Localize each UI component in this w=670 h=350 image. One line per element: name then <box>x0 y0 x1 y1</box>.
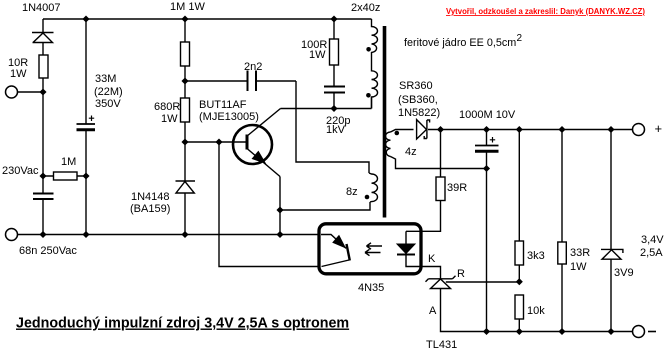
node collector / 220p <box>330 105 337 112</box>
wire emitter vertical <box>279 177 281 235</box>
svg-text:1N4007: 1N4007 <box>22 2 61 14</box>
svg-text:feritové jádro EE 0,5cm: feritové jádro EE 0,5cm <box>404 37 516 49</box>
svg-text:(22M): (22M) <box>94 86 123 98</box>
wire 100R column <box>333 19 335 109</box>
resistor 10R <box>39 55 48 78</box>
svg-text:3,4V: 3,4V <box>641 234 664 246</box>
svg-text:K: K <box>428 253 436 265</box>
8z phase dot <box>365 195 370 200</box>
wire opto base feedback <box>219 142 319 267</box>
node base / 1N4148 <box>181 138 188 145</box>
svg-text:68n 250Vac: 68n 250Vac <box>19 245 77 257</box>
resistor 100R <box>330 39 339 65</box>
wire 39R column <box>406 130 441 232</box>
svg-text:TL431: TL431 <box>426 339 457 350</box>
node secondary ground <box>483 165 490 172</box>
svg-text:350V: 350V <box>95 98 121 110</box>
svg-text:2x40z: 2x40z <box>351 2 380 14</box>
wire bottom left rail <box>18 234 319 236</box>
wire 8z bottom <box>280 202 370 210</box>
node bottom rail / 33M <box>82 231 89 238</box>
wire 4z bottom lead <box>391 157 487 169</box>
svg-text:4N35: 4N35 <box>358 282 384 294</box>
resistor 680R <box>181 98 190 122</box>
wire 33M branch <box>85 19 87 235</box>
node divider / R ref <box>516 278 523 285</box>
resistor 33R <box>558 242 567 264</box>
resistor R2 1M horizontal <box>54 172 78 180</box>
wire R reference <box>446 281 520 283</box>
transistor Q1 BUT11AF <box>233 109 281 177</box>
svg-text:Vytvořil, odzkoušel a zakresli: Vytvořil, odzkoušel a zakreslil: Danyk (… <box>446 6 645 16</box>
wire LED cathode <box>406 255 441 279</box>
svg-text:R: R <box>457 268 465 280</box>
diode D3 SR360 schottky <box>417 120 430 139</box>
diode D1 1N4007 <box>32 33 54 43</box>
svg-text:2,5A: 2,5A <box>640 247 663 259</box>
svg-text:(BA159): (BA159) <box>130 203 170 215</box>
node top rail / 100R <box>330 15 337 22</box>
wire 1M1W column <box>184 19 186 81</box>
capacitor C1 33M electrolytic <box>77 116 96 130</box>
node emitter / 8z <box>276 206 283 213</box>
wire 4z top lead <box>391 130 414 133</box>
4z phase dot <box>395 131 400 136</box>
svg-text:10k: 10k <box>527 305 545 317</box>
svg-text:2: 2 <box>517 33 523 44</box>
wire left branch to 1M <box>42 92 44 176</box>
primary phase dot upper <box>366 47 371 52</box>
svg-text:SR360: SR360 <box>399 80 433 92</box>
svg-text:1N5822): 1N5822) <box>398 107 440 119</box>
wire 3V9 column <box>610 130 612 332</box>
transformer secondary 4z winding <box>386 132 391 157</box>
svg-text:1kV: 1kV <box>326 124 346 136</box>
svg-text:680R: 680R <box>154 101 180 113</box>
resistor 3k3 <box>515 241 524 265</box>
diode D2 1N4148 <box>176 181 196 193</box>
svg-text:1W: 1W <box>309 49 326 61</box>
svg-text:3k3: 3k3 <box>527 250 545 262</box>
zener diode 3V9 <box>601 249 623 259</box>
svg-text:1W: 1W <box>161 113 178 125</box>
primary phase dot lower <box>366 93 371 98</box>
wire 1N4148 column <box>184 142 186 235</box>
wire 2n2 to 8z top <box>296 81 369 173</box>
svg-text:230Vac: 230Vac <box>2 165 39 177</box>
wire 680R column <box>184 81 186 142</box>
shunt regulator TL431 <box>426 276 456 289</box>
wire LED anode inside opto <box>405 231 407 244</box>
node -rail / 1000M <box>483 328 490 335</box>
wire diode to rail <box>428 129 633 131</box>
svg-text:Jednoduchý impulzní zdroj 3,4V: Jednoduchý impulzní zdroj 3,4V 2,5A s op… <box>16 316 349 332</box>
svg-text:4z: 4z <box>405 146 417 158</box>
node 1M right <box>82 172 89 179</box>
svg-text:(MJE13005): (MJE13005) <box>199 111 259 123</box>
svg-text:BUT11AF: BUT11AF <box>199 99 247 111</box>
wire 2n2 link <box>185 80 296 82</box>
svg-text:1W: 1W <box>10 68 27 80</box>
node AC live input <box>39 88 46 95</box>
node base / opto <box>215 138 222 145</box>
node top rail / 33M <box>82 15 89 22</box>
optocoupler U1 4N35 box <box>319 224 421 274</box>
wire 33R column <box>561 130 563 332</box>
wire TL431 anode / bottom output rail <box>441 289 633 332</box>
transformer T1 core <box>383 26 387 218</box>
svg-text:33R: 33R <box>570 247 590 259</box>
node bottom rail / emitter <box>276 231 283 238</box>
node bottom rail / 1N4148 <box>181 231 188 238</box>
capacitor 1000M electrolytic <box>475 137 499 151</box>
node 680R top <box>181 77 188 84</box>
wire terminal1 to junction <box>18 91 44 93</box>
wire base <box>185 141 246 143</box>
svg-text:1M 1W: 1M 1W <box>170 1 205 13</box>
node -rail / 33R <box>558 328 565 335</box>
wire 1000M column <box>486 130 488 332</box>
resistor 10k <box>515 295 524 319</box>
svg-text:1M: 1M <box>61 156 76 168</box>
terminal output minus <box>633 326 645 338</box>
capacitor 220p <box>324 87 345 93</box>
node +rail / 1000M <box>483 126 490 133</box>
wire left AC branch upper <box>42 19 44 92</box>
node bottom rail / 68n <box>39 231 46 238</box>
svg-text:39R: 39R <box>447 182 467 194</box>
svg-text:2n2: 2n2 <box>244 61 262 73</box>
capacitor 2n2 <box>248 71 257 92</box>
resistor 1M 1W <box>181 42 190 66</box>
svg-text:8z: 8z <box>346 186 358 198</box>
wire 1M link left <box>43 175 86 177</box>
wire top rail <box>43 18 372 20</box>
svg-text:1000M 10V: 1000M 10V <box>459 109 516 121</box>
node +rail / 39R <box>437 126 444 133</box>
node -rail / 10k <box>516 328 523 335</box>
resistor 39R <box>436 177 445 201</box>
transformer winding 8z <box>369 173 378 202</box>
transformer primary 2x40z winding <box>372 19 378 109</box>
terminal AC neutral <box>6 229 18 241</box>
capacitor 68n <box>33 194 54 200</box>
node 1M left <box>39 172 46 179</box>
node top rail / 1M 1W <box>181 15 188 22</box>
terminal output plus <box>633 124 645 136</box>
svg-text:A: A <box>429 305 437 317</box>
opto phototransistor <box>321 235 350 267</box>
terminal AC live <box>6 86 645 338</box>
svg-text:1N4148: 1N4148 <box>131 191 170 203</box>
opto light arrows <box>365 243 382 256</box>
svg-text:1W: 1W <box>570 261 587 273</box>
svg-text:+: + <box>655 121 663 136</box>
wire 3k3 column <box>518 130 520 332</box>
svg-text:33M: 33M <box>95 73 116 85</box>
minus sign <box>648 331 656 333</box>
node +rail / 33R <box>558 126 565 133</box>
wire collector net <box>281 97 372 109</box>
svg-text:(SB360,: (SB360, <box>398 94 438 106</box>
svg-text:3V9: 3V9 <box>614 267 634 279</box>
node +rail / 3k3 <box>516 126 523 133</box>
wire left branch to 68n <box>42 176 44 235</box>
opto LED <box>397 244 415 255</box>
node -rail / 3V9 <box>607 328 614 335</box>
node +rail / 3V9 <box>607 126 614 133</box>
